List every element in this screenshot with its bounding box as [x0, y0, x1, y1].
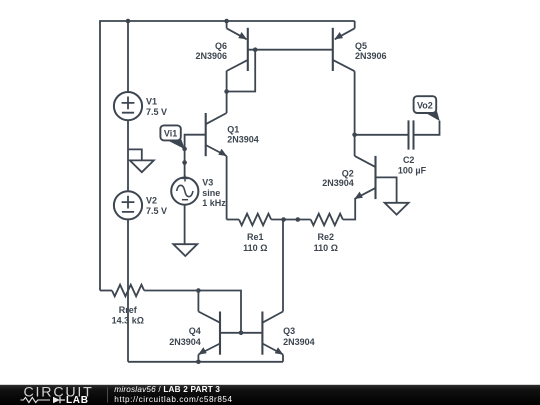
wire Q1 emitter down — [226, 156, 228, 220]
ground below V3 — [173, 244, 197, 256]
wire base rail Q6 to Q5 — [248, 49, 333, 51]
flag Vi1 — [160, 125, 185, 149]
wire V1V2 chain top — [127, 21, 129, 92]
node top rail V1 — [126, 19, 131, 24]
svg-text:Q2: Q2 — [342, 168, 354, 178]
wire output node to C2 — [355, 134, 408, 136]
svg-text:2N3904: 2N3904 — [169, 337, 201, 347]
transistor Q5 2N3906 pnp — [333, 21, 355, 71]
footer bar — [0, 384, 540, 405]
wire Q2 collector stub — [354, 135, 356, 156]
wire Q2 base to ground — [376, 177, 397, 202]
svg-text:Q1: Q1 — [227, 125, 239, 135]
svg-text:Vo2: Vo2 — [417, 100, 433, 110]
wire Q1 base to V3 — [185, 135, 206, 178]
svg-text:2N3904: 2N3904 — [283, 337, 315, 347]
svg-text:Re1: Re1 — [247, 232, 264, 242]
svg-text:100 µF: 100 µF — [398, 165, 427, 175]
svg-text:miroslav56 / LAB 2 PART 3: miroslav56 / LAB 2 PART 3 — [114, 385, 220, 394]
node Q6 base tie — [253, 47, 258, 52]
svg-text:110 Ω: 110 Ω — [243, 243, 267, 253]
resistor Rref — [112, 285, 144, 297]
logo diode — [53, 397, 60, 404]
wire Q4 emitter to bottom rail — [197, 355, 199, 362]
transistor Q2 2N3904 npn flipped — [354, 156, 375, 199]
wire Rref left lead — [100, 290, 112, 292]
svg-text:Rref: Rref — [119, 305, 138, 315]
wire base rail Q4 to Q3 — [220, 332, 262, 334]
svg-text:V2: V2 — [146, 196, 157, 206]
wire V2 to bottom rail — [127, 219, 129, 361]
wire bottom rail — [128, 361, 283, 363]
svg-text:1 kHz: 1 kHz — [202, 198, 226, 208]
wire Q4 collector vertical — [197, 291, 199, 312]
capacitor C2 — [409, 120, 414, 149]
node Re1 right — [281, 217, 286, 222]
node Re2 left — [296, 217, 301, 222]
wire Q5 collector down to output node — [354, 71, 356, 135]
svg-text:C2: C2 — [403, 155, 415, 165]
wire V1 to V2 — [127, 120, 129, 191]
voltage source V2 — [114, 191, 142, 219]
wire Q6 base-collector tie — [227, 50, 256, 92]
svg-text:2N3904: 2N3904 — [227, 135, 259, 145]
svg-text:7.5 V: 7.5 V — [146, 206, 167, 216]
node output — [352, 133, 357, 138]
svg-text:110 Ω: 110 Ω — [314, 243, 338, 253]
wire C2 to Vo2 corner — [415, 121, 440, 135]
svg-text:V1: V1 — [146, 97, 157, 107]
ground at Q2 base — [385, 203, 409, 215]
wire Q3 emitter to bottom rail — [282, 355, 284, 362]
wire Re1 left lead — [227, 219, 239, 221]
transistor Q4 2N3904 npn flipped — [198, 312, 220, 355]
transistor Q1 2N3904 npn — [206, 113, 227, 156]
logo squiggle resistor — [21, 397, 51, 402]
transistor Q3 2N3904 npn — [262, 312, 283, 355]
wire ground tap below V1 — [128, 149, 142, 160]
wire Q3 collector vertical to Re junction — [282, 220, 284, 312]
voltage source V1 — [114, 92, 142, 120]
node top rail Q6 emitter — [224, 19, 229, 24]
wire Re1 to Re2 — [271, 219, 311, 221]
svg-text:Q5: Q5 — [355, 41, 367, 51]
svg-text:Q3: Q3 — [283, 326, 295, 336]
voltage source V3 sine — [171, 175, 198, 204]
node Vi1 attach — [182, 147, 187, 152]
svg-text:14.3 kΩ: 14.3 kΩ — [112, 316, 144, 326]
svg-text:V3: V3 — [202, 177, 213, 187]
transistor Q6 2N3906 pnp flipped — [227, 21, 248, 71]
svg-text:Re2: Re2 — [318, 232, 335, 242]
svg-text:Q4: Q4 — [189, 326, 201, 336]
svg-text:sine: sine — [202, 188, 220, 198]
footer separator — [107, 388, 109, 403]
flag Vo2 — [414, 96, 440, 121]
svg-text:LAB: LAB — [66, 395, 89, 405]
node bottom rail Q4 emitter — [196, 360, 201, 365]
svg-text:Q6: Q6 — [215, 41, 227, 51]
node base rail tie — [239, 331, 244, 336]
svg-text:Vi1: Vi1 — [164, 129, 177, 139]
resistor Re1 — [239, 214, 271, 226]
wire top rail — [100, 21, 355, 291]
wire Re2 right lead to Q2 emitter — [343, 199, 355, 220]
node Q6 collector tie — [224, 89, 229, 94]
svg-text:2N3906: 2N3906 — [355, 51, 387, 61]
node V3 top — [182, 160, 187, 165]
ground below V1 — [130, 160, 154, 172]
svg-text:2N3906: 2N3906 — [195, 51, 227, 61]
svg-text:2N3904: 2N3904 — [322, 178, 354, 188]
wire Rref to Q4 collector and bases tie — [144, 291, 241, 333]
svg-text:7.5 V: 7.5 V — [146, 107, 167, 117]
svg-text:http://circuitlab.com/c58r854: http://circuitlab.com/c58r854 — [114, 395, 232, 404]
wire V3 to ground — [184, 205, 186, 245]
wire Q6 collector vertical and Q1 collector — [226, 71, 228, 113]
node Rref Q4 collector — [196, 288, 201, 293]
resistor Re2 — [311, 214, 343, 226]
